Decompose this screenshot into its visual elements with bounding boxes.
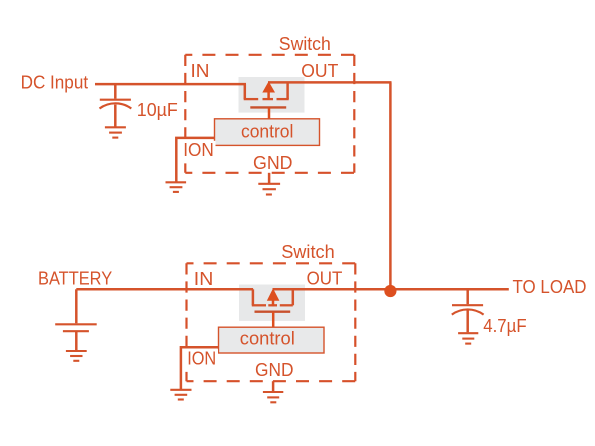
wire BATTERY to switch IN [76,288,253,291]
wire OUT run to TO LOAD [273,288,509,291]
transistor Q2 body-diode arrow [267,288,280,300]
control block U2a [219,327,325,353]
capacitor C1 curved plate [100,103,132,108]
transistor Q2 drain step [292,289,295,305]
wire DC Input to switch IN [95,83,246,86]
ground under C1 [105,127,126,137]
transistor Q1 gray backdrop [239,77,305,113]
wire ION (bottom) [181,347,219,390]
ground at ION (top) [166,182,187,192]
svg-text:DC Input: DC Input [21,73,89,94]
ground under battery [66,351,87,361]
svg-text:OUT: OUT [301,61,338,82]
battery B1 lower lead [75,331,78,350]
svg-text:control: control [241,122,293,143]
svg-text:BATTERY: BATTERY [38,269,113,290]
ground at GND (bottom) [263,392,283,402]
transistor Q1 drain step [286,82,289,99]
capacitor C2 4.7uF top plate [452,304,483,306]
svg-text:ION: ION [183,140,214,161]
svg-text:Switch: Switch [281,242,335,263]
battery B1 long plate [55,323,96,325]
transistor Q1 body-diode arrow [262,81,275,92]
ground at GND (top) [258,184,280,195]
battery B1 short plate [63,330,89,332]
capacitor C1 10uF top plate [100,99,131,101]
junction node dot [384,285,396,297]
svg-text:IN: IN [194,269,214,290]
mask behind ION (bottom) [184,349,218,366]
svg-text:Switch: Switch [279,34,331,55]
svg-text:GND: GND [253,153,293,174]
transistor Q1 channel contacts [244,98,289,100]
transistor Q1 gate lead to control [268,107,271,119]
svg-text:ION: ION [187,348,216,369]
transistor Q1 gate bar [250,106,286,108]
transistor Q2 source step [252,289,255,305]
wire GND pin (bottom) [272,381,275,392]
transistor Q2 channel contacts [252,304,293,306]
ground under C2 [458,333,478,343]
svg-text:control: control [240,328,295,349]
svg-text:IN: IN [191,61,210,82]
transistor Q2 gate lead to control [272,312,275,328]
transistor Q1 arrow tail [267,92,270,100]
svg-text:10µF: 10µF [137,100,178,121]
switch U1 dashed box [185,55,354,173]
switch U2 dashed box [187,263,356,381]
transistor Q2 gray backdrop [239,285,305,321]
transistor Q1 drain bar and OUT wire to corner [268,81,392,84]
wire GND pin (top) [268,173,271,184]
svg-text:4.7µF: 4.7µF [483,316,526,337]
transistor Q2 gate bar [255,311,291,313]
control block U1a [215,119,320,146]
capacitor C1 lead [114,84,117,99]
capacitor C1 lower lead [114,105,117,127]
wire ION (top) [176,138,214,183]
svg-text:OUT: OUT [307,268,343,289]
capacitor C2 lower lead [466,310,469,332]
svg-text:GND: GND [255,360,294,381]
transistor Q2 arrow tail [272,300,275,306]
mask behind ION (top) [182,141,216,158]
wire OUT vertical to junction [389,82,392,290]
capacitor C2 curved plate [452,309,484,314]
ground at ION (bottom) [170,390,191,400]
battery B1 lead [75,289,78,323]
capacitor C2 lead [466,289,469,304]
svg-text:TO LOAD: TO LOAD [513,277,587,298]
transistor Q1 source step [244,84,247,99]
